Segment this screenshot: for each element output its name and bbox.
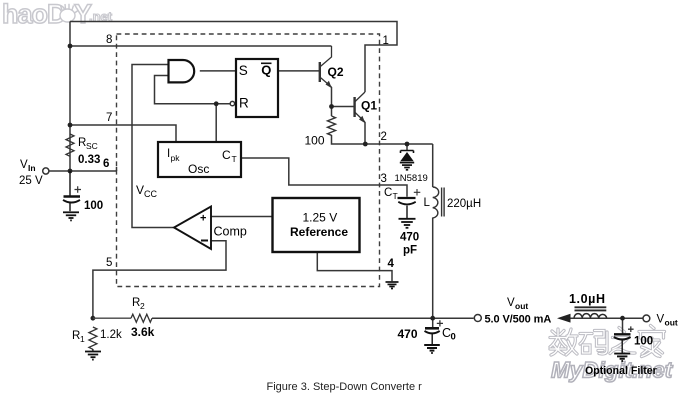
svg-text:1.0µH: 1.0µH: [569, 292, 606, 306]
svg-text:Optional Filter: Optional Filter: [585, 365, 657, 377]
svg-text:100: 100: [305, 134, 325, 148]
svg-text:C: C: [222, 148, 231, 162]
svg-text:5: 5: [106, 257, 112, 269]
svg-text:C: C: [384, 187, 392, 199]
svg-text:V: V: [507, 297, 515, 309]
svg-text:4: 4: [388, 258, 395, 270]
svg-text:haoD: haoD: [2, 0, 66, 29]
svg-text:1: 1: [80, 334, 85, 344]
svg-text:100: 100: [634, 336, 653, 348]
svg-text:CC: CC: [144, 189, 157, 199]
svg-text:1: 1: [383, 35, 389, 47]
svg-text:T: T: [393, 191, 398, 201]
svg-text:470: 470: [400, 232, 419, 244]
svg-text:25 V: 25 V: [19, 175, 43, 187]
svg-text:2: 2: [140, 301, 145, 311]
svg-text:S: S: [239, 63, 248, 78]
svg-text:R: R: [239, 96, 249, 111]
svg-text:Q2: Q2: [328, 65, 344, 79]
svg-text:L: L: [424, 197, 431, 209]
svg-text:7: 7: [106, 112, 112, 124]
svg-text:pk: pk: [171, 153, 181, 163]
svg-text:SC: SC: [86, 141, 98, 151]
svg-text:T: T: [232, 154, 237, 164]
svg-text:Comp: Comp: [214, 225, 247, 239]
svg-text:V: V: [20, 159, 28, 171]
svg-text:+: +: [200, 213, 206, 225]
svg-text:3.6k: 3.6k: [131, 325, 155, 339]
svg-text:0.33: 0.33: [78, 154, 100, 166]
svg-text:2: 2: [381, 131, 387, 143]
svg-text:220µH: 220µH: [447, 198, 481, 210]
svg-text:1N5819: 1N5819: [395, 173, 428, 184]
svg-text:3: 3: [381, 173, 387, 185]
svg-text:0: 0: [451, 332, 456, 343]
svg-text:1.25 V: 1.25 V: [303, 211, 338, 225]
svg-text:V: V: [136, 183, 144, 197]
svg-text:1.2k: 1.2k: [100, 329, 122, 341]
svg-text:Osc: Osc: [188, 162, 209, 176]
svg-text:Reference: Reference: [290, 225, 348, 239]
svg-text:V: V: [657, 314, 665, 326]
svg-text:8: 8: [106, 34, 112, 46]
svg-text:out: out: [665, 318, 678, 328]
svg-text:pF: pF: [403, 245, 417, 257]
svg-text:Q1: Q1: [361, 99, 377, 113]
svg-text:5.0 V/500 mA: 5.0 V/500 mA: [485, 314, 552, 326]
svg-text:Figure 3. Step-Down Converte r: Figure 3. Step-Down Converte r: [267, 381, 423, 393]
svg-text:Q: Q: [261, 63, 271, 78]
svg-text:out: out: [515, 301, 528, 311]
svg-text:In: In: [28, 163, 36, 173]
svg-text:6: 6: [103, 158, 109, 170]
svg-text:100: 100: [84, 200, 103, 212]
svg-text:470: 470: [398, 327, 418, 341]
